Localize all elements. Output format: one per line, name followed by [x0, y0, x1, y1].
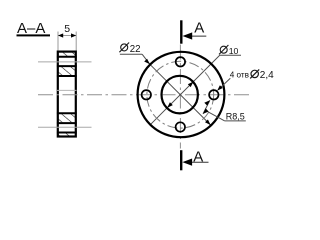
section mark bottom: arrowhead [182, 159, 192, 166]
dimension 5 arrowheads [58, 33, 76, 37]
hatch band 1 (top rim) [57, 53, 75, 56]
top hole lower edge [57, 65, 77, 67]
hatch band 4 (bottom rim) [57, 133, 75, 135]
hatch band 3 (between bore and bottom hole) [57, 114, 75, 122]
4 holes leader arrowhead [217, 85, 223, 91]
diameter 22 arrowhead NW [144, 59, 150, 65]
stray thin line in bore [57, 89, 77, 91]
bottom hole upper edge [57, 122, 77, 124]
section mark top: arrowhead [183, 32, 193, 39]
svg-text:2,4: 2,4 [260, 70, 274, 81]
bottom hole axis [38, 126, 92, 128]
bore lower edge [57, 112, 77, 114]
diameter 10 dimension line (SW-NE diagonal) [150, 55, 241, 124]
dimension 5 extension lines [58, 32, 76, 51]
central bore circle [162, 76, 198, 114]
diameter 10 label symbol [219, 45, 228, 54]
svg-text:R8,5: R8,5 [226, 111, 245, 121]
section label A-A [17, 20, 51, 37]
main horizontal centerline [38, 94, 253, 96]
4 holes leader [219, 78, 231, 89]
diameter 22 label symbol [119, 43, 129, 53]
diameter 22 arrowhead SE [205, 120, 211, 126]
diameter 22 dimension line (NW-SE diagonal) [150, 64, 211, 125]
diameter 22 shelf [120, 53, 142, 55]
left hole [142, 90, 151, 99]
section mark bottom: arrow line [192, 161, 209, 163]
right hole [209, 90, 218, 99]
bore upper edge [57, 75, 77, 77]
section mark bottom: cutting plane stroke [180, 150, 182, 170]
top hole upper edge [57, 56, 77, 58]
svg-text:5: 5 [64, 23, 70, 35]
svg-text:22: 22 [130, 44, 141, 55]
vertical centerline [179, 45, 181, 149]
R8,5 arrow line [203, 100, 210, 114]
R8,5 leader [206, 111, 225, 121]
top hole [176, 57, 185, 66]
bottom hole lower edge [57, 132, 77, 134]
dimension 5 line [58, 35, 76, 37]
outer circle [138, 52, 225, 137]
section mark top: cutting plane stroke [180, 20, 182, 43]
diameter 10 arrowhead SW [167, 102, 173, 108]
diameter 22 leader [142, 54, 150, 64]
section outline [58, 52, 76, 137]
R8,5 shelf [225, 120, 246, 122]
svg-text:A: A [194, 20, 204, 37]
svg-text:10: 10 [229, 46, 239, 56]
diameter 10 arrowhead NE [188, 82, 194, 88]
top hole axis [38, 61, 92, 63]
hatch band 2 (between top hole and bore) [57, 67, 75, 75]
svg-text:4 отв: 4 отв [230, 71, 249, 80]
R8,5 arrowhead SW [203, 108, 209, 114]
4 holes label diameter symbol [250, 69, 259, 78]
svg-text:A: A [193, 149, 203, 166]
R8,5 arrowhead NE [204, 100, 210, 106]
bottom hole [176, 122, 185, 131]
bolt circle [147, 61, 214, 128]
section mark top: arrow line [190, 35, 206, 37]
